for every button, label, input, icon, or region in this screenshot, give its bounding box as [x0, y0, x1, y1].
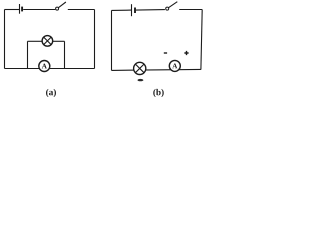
switch S (b): open lever arm: [169, 2, 178, 8]
label (a): [46, 89, 56, 97]
battery cell (a): long thin plate (+): [19, 4, 21, 14]
wire: lamp branch right horizontal (a): [52, 40, 65, 42]
lamp L (b): circle: [134, 62, 146, 74]
battery cell (b): long thin plate (+): [131, 4, 133, 16]
battery cell (b): short thick plate (-): [134, 8, 136, 14]
wire: lamp branch left horizontal (a): [28, 40, 44, 42]
lamp L (a): circle: [42, 36, 53, 47]
wire: (b) switch to top-right corner: [179, 9, 202, 11]
wire: (b) right side: [201, 10, 202, 70]
wire: lamp branch right vertical (a): [64, 41, 66, 68]
wire: (a) switch to top-right corner: [68, 9, 95, 11]
wire: (a) right side: [94, 10, 96, 69]
wire: (b) battery to switch: [136, 9, 165, 11]
ammeter A (a): circle: [39, 61, 50, 72]
wire: (a) battery to switch: [23, 9, 55, 11]
ammeter A (a): letter: [42, 64, 47, 69]
lamp L (b): cross: [135, 64, 144, 73]
wire: lamp branch left vertical (a): [27, 41, 29, 68]
lamp L (a): cross: [44, 37, 52, 45]
wire: (a) bottom: [5, 68, 95, 70]
wire: (b) top, left corner to battery: [112, 9, 132, 11]
wire: (b) bottom: [112, 69, 201, 70]
wire: (a) top, left corner to battery: [5, 9, 20, 11]
label (b): [153, 89, 163, 97]
polarity plus label: [184, 51, 188, 55]
switch S (a): pivot circle: [56, 7, 59, 10]
wire: (b) left side: [111, 10, 113, 70]
ammeter A (b): letter: [172, 64, 177, 69]
polarity minus label: [164, 52, 167, 54]
switch S (a): open lever arm: [58, 2, 66, 8]
ammeter A (b): circle: [169, 60, 180, 71]
switch S (b): pivot circle: [166, 7, 169, 10]
battery cell (a): short thick plate (-): [21, 7, 23, 12]
wire: (a) left side: [4, 10, 6, 69]
ink smudge below lamp (b): [138, 79, 144, 81]
